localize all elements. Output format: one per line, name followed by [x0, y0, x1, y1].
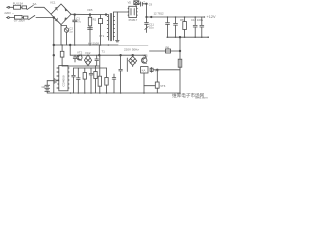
capacitor C1	[73, 15, 77, 45]
capacitor C3	[73, 55, 77, 62]
svg-text:VT6: VT6	[160, 84, 166, 88]
svg-text:12 7812: 12 7812	[154, 12, 165, 16]
mid wire	[70, 54, 146, 56]
wire secondary to rectifier	[113, 12, 128, 14]
IC U1	[57, 66, 69, 91]
svg-text:VC2: VC2	[85, 51, 91, 55]
svg-text:HY-2108: HY-2108	[88, 41, 99, 45]
svg-text:PC817: PC817	[129, 18, 138, 22]
junction dots bottom rail	[70, 92, 145, 94]
switch blade bottom	[29, 16, 35, 20]
resistor R3	[94, 66, 97, 93]
svg-text:VT5: VT5	[142, 53, 148, 57]
bridge rectifier VC1	[51, 4, 71, 25]
wire	[21, 6, 23, 8]
svg-text:220V: 220V	[4, 11, 11, 15]
svg-text:FU 0.5A: FU 0.5A	[13, 2, 23, 6]
wire lower feedback	[150, 50, 181, 52]
capacitor C15	[200, 17, 204, 37]
svg-text:dzsc.com: dzsc.com	[195, 96, 208, 100]
output ground rail	[167, 36, 209, 38]
svg-text:+: +	[143, 0, 145, 3]
DC bus rail	[71, 13, 108, 15]
interference filter box bottom	[24, 16, 28, 19]
transistor VT3	[141, 55, 147, 63]
svg-text:47u: 47u	[76, 20, 81, 24]
small bridge VC2	[84, 55, 91, 66]
svg-text:VD: VD	[128, 1, 132, 4]
feedback vertical wire	[145, 4, 149, 33]
svg-text:SA: SA	[33, 2, 37, 6]
bridge VC3	[129, 56, 137, 65]
wire N bottom	[9, 17, 14, 19]
junction	[74, 14, 76, 16]
capacitor C12	[166, 17, 170, 37]
svg-text:220V 50Hz: 220V 50Hz	[124, 47, 139, 51]
+12V rail	[147, 16, 205, 18]
svg-text:C9: C9	[149, 4, 153, 7]
wire to bridge VC3	[132, 55, 134, 56]
electrolytic C2 circle	[61, 25, 69, 45]
switch S1 blade top	[27, 5, 33, 9]
resistor R6 on wire	[166, 49, 171, 53]
capacitor C4	[95, 55, 99, 65]
primary ground rail	[54, 44, 118, 46]
transistor VT1 switch	[98, 15, 102, 45]
capacitor C13	[174, 17, 178, 37]
capacitor C5 left of IC	[47, 78, 59, 83]
junction	[53, 54, 55, 56]
svg-text:R8: R8	[180, 18, 184, 22]
interference filter box top	[22, 6, 27, 9]
junction dots on rail	[61, 44, 109, 46]
capacitor C8	[89, 68, 93, 93]
junction	[89, 14, 91, 16]
resistor R1	[88, 15, 93, 45]
resistor R7 on right vertical	[178, 59, 182, 67]
transistor VT4 bottom	[144, 70, 159, 93]
resistor R4	[98, 55, 101, 93]
transformer T1	[107, 13, 114, 40]
svg-text:T1: T1	[102, 50, 106, 54]
wire mid horizontals	[62, 65, 99, 67]
svg-text:VT2: VT2	[77, 50, 83, 54]
transistor VT2	[77, 55, 82, 61]
junction	[99, 54, 101, 56]
optocoupler U2	[128, 6, 138, 17]
junction dot N	[53, 17, 55, 19]
svg-text:~: ~	[12, 12, 14, 16]
battery GB	[45, 81, 50, 93]
capacitor C8 series	[139, 0, 147, 6]
diode box VD7	[134, 1, 139, 7]
wire diamond left drop	[126, 58, 128, 72]
bottom ground rail	[47, 92, 180, 94]
capacitor C6	[72, 68, 76, 93]
capacitor C7	[77, 68, 81, 93]
control section: drop from rail	[60, 45, 64, 66]
svg-text:VT1: VT1	[99, 34, 105, 38]
wire to bridge bottom vertex	[36, 17, 54, 19]
component VD6	[150, 67, 153, 72]
relay box KA	[141, 67, 148, 93]
AC plug terminals	[6, 6, 9, 18]
wire secondary bottom drop	[116, 12, 120, 42]
junction	[53, 44, 55, 46]
wire relay to right vertical	[153, 69, 180, 71]
resistor R8	[183, 17, 187, 37]
resistor R2	[83, 68, 86, 93]
wire	[22, 17, 23, 19]
svg-text:R1: R1	[93, 17, 97, 21]
capacitor C14	[193, 17, 197, 37]
svg-text:VC1: VC1	[50, 0, 56, 4]
fuse XS box	[15, 15, 23, 19]
svg-text:CD4069: CD4069	[62, 75, 66, 86]
resistor R5	[105, 68, 108, 93]
svg-text:VD5: VD5	[87, 8, 93, 12]
svg-text:10u: 10u	[149, 26, 154, 30]
junction	[120, 54, 122, 56]
left vertical wire	[53, 18, 55, 94]
svg-text:R6: R6	[166, 45, 170, 49]
capacitor C9	[112, 74, 116, 93]
wire to bridge left vertex	[34, 7, 51, 14]
svg-text:KA: KA	[142, 69, 146, 73]
capacitor C10	[119, 55, 123, 93]
junction	[105, 14, 107, 16]
vertical wire right of section	[98, 45, 100, 55]
fuse FU1	[14, 5, 21, 9]
svg-text:GB: GB	[42, 86, 46, 89]
wire L top	[10, 6, 14, 8]
svg-text:+12V: +12V	[207, 15, 216, 19]
right vertical wire	[179, 37, 181, 93]
svg-text:1u: 1u	[69, 30, 73, 34]
